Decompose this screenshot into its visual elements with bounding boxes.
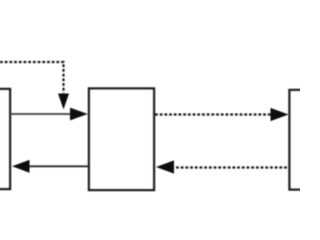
arrowhead left into middle block: [156, 160, 174, 173]
left block (clipped at left edge): [0, 89, 10, 189]
wire middle box to left box (solid): [28, 165, 89, 167]
middle block: [89, 89, 154, 191]
arrowhead right into right block: [271, 108, 289, 121]
dashed feedback wire top-left: [0, 62, 64, 93]
dashed wire middle box to right box: [155, 113, 272, 115]
right block (clipped at right edge): [290, 90, 320, 190]
dashed wire right box to middle box: [176, 166, 289, 168]
arrowhead down on feedback wire: [58, 94, 69, 110]
arrowhead left into left block: [12, 160, 30, 173]
wire left box to middle box (solid): [11, 113, 74, 115]
arrowhead right into middle block: [70, 108, 88, 121]
